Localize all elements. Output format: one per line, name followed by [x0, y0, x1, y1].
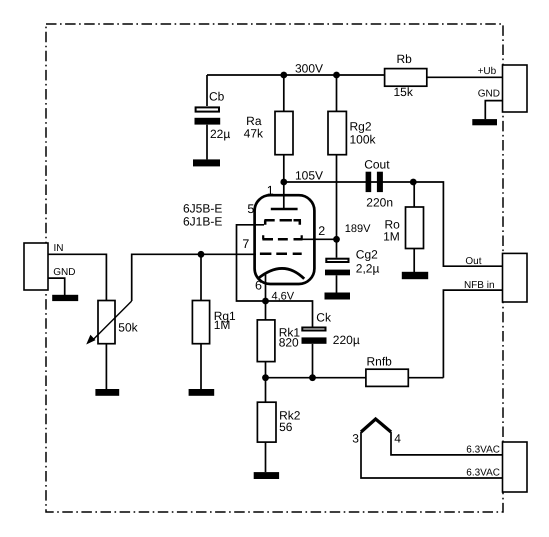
wire pin2 to 189V node	[303, 238, 337, 240]
svg-text:6J5B-E: 6J5B-E	[183, 201, 222, 215]
wire heater pin 4 to 6.3VAC	[391, 432, 503, 455]
node 105V (anode)	[280, 179, 287, 186]
svg-text:6.3VAC: 6.3VAC	[466, 444, 500, 455]
ground (under Cb)	[193, 159, 220, 166]
svg-text:820: 820	[279, 336, 299, 350]
svg-text:4: 4	[394, 431, 401, 445]
node grid/Rg1	[198, 251, 205, 258]
wire Rb to +Ub	[427, 76, 503, 78]
grid g3 (pin 5) dashed with end ticks	[264, 220, 301, 225]
ground (right of +Ub)	[472, 119, 497, 125]
node 300V (Rg2 top)	[333, 72, 340, 79]
connector +Ub/GND	[503, 65, 528, 112]
wire pin5 to cathode node	[237, 225, 266, 301]
ground (under Cg2)	[325, 293, 351, 300]
wire IN to pot	[48, 254, 106, 300]
svg-text:1M: 1M	[383, 230, 400, 244]
svg-text:Cb: Cb	[209, 90, 225, 104]
svg-text:Cg2: Cg2	[356, 248, 378, 262]
node Ck bottom	[309, 374, 316, 381]
resistor Rg2	[328, 75, 377, 239]
svg-text:100k: 100k	[350, 133, 377, 147]
svg-text:Rb: Rb	[397, 52, 413, 66]
svg-text:15k: 15k	[394, 85, 414, 99]
resistor Rnfb	[366, 354, 408, 386]
grid g1 (pin 7) dashed	[260, 253, 302, 256]
connector Out/NFB	[503, 253, 528, 302]
wire pot bottom to ground	[105, 344, 107, 389]
cathode lead (pin 6)	[265, 275, 267, 302]
wire NFB path	[408, 290, 502, 378]
wire GND stub (right)	[485, 101, 502, 120]
svg-text:50k: 50k	[118, 320, 138, 334]
svg-text:5: 5	[247, 202, 254, 216]
svg-text:Rg2: Rg2	[350, 120, 372, 134]
svg-text:220n: 220n	[366, 196, 393, 210]
ground (under Ro)	[402, 272, 428, 279]
anode plate bar	[271, 208, 298, 211]
svg-text:7: 7	[242, 237, 249, 251]
potentiometer 50k	[86, 301, 138, 345]
svg-text:105V: 105V	[295, 169, 323, 183]
anode lead (pin 1)	[283, 182, 285, 209]
svg-text:300V: 300V	[295, 62, 323, 76]
svg-text:Out: Out	[465, 256, 481, 267]
svg-text:Cout: Cout	[364, 157, 390, 171]
node cathode 4,6V	[262, 298, 269, 305]
ground (under pot)	[95, 389, 119, 396]
svg-text:3: 3	[352, 431, 359, 445]
svg-text:189V: 189V	[345, 223, 371, 235]
svg-text:2,2µ: 2,2µ	[356, 261, 380, 275]
ground (input)	[52, 295, 78, 301]
svg-text:6.3VAC: 6.3VAC	[466, 467, 500, 478]
svg-text:56: 56	[279, 420, 293, 434]
node 300V (Ra top)	[280, 72, 287, 79]
svg-text:47k: 47k	[244, 127, 264, 141]
ground (under Rg1)	[189, 389, 215, 396]
connector 6.3VAC	[503, 442, 528, 492]
svg-text:NFB in: NFB in	[464, 280, 495, 291]
node 189V	[333, 236, 340, 243]
border frame (dash-dot)	[46, 24, 503, 512]
wire 105V line	[284, 181, 414, 183]
resistor Rk2	[257, 378, 300, 472]
tube U1 envelope	[255, 195, 315, 284]
svg-text:+Ub: +Ub	[478, 66, 497, 77]
wire 300V rail	[207, 74, 385, 76]
wire cathode bottom row	[266, 377, 366, 379]
svg-text:GND: GND	[478, 89, 500, 100]
svg-text:6J1B-E: 6J1B-E	[183, 214, 222, 228]
ground (under Rk2)	[254, 472, 279, 479]
svg-text:Rnfb: Rnfb	[367, 354, 393, 368]
svg-text:6: 6	[255, 279, 262, 293]
resistor Rb	[385, 52, 427, 99]
capacitor Ck	[266, 301, 360, 378]
svg-text:22µ: 22µ	[210, 127, 230, 141]
heater filament pins 3-4	[352, 419, 401, 445]
wire heater pin 3 to 6.3VAC	[361, 432, 503, 478]
cathode arc	[258, 268, 305, 278]
connector IN	[24, 243, 48, 290]
resistor Ro	[383, 182, 423, 272]
svg-text:IN: IN	[54, 243, 64, 254]
capacitor Cout	[364, 157, 393, 209]
capacitor Cg2	[325, 239, 379, 292]
svg-text:220µ: 220µ	[333, 333, 360, 347]
svg-text:Ck: Ck	[316, 311, 332, 325]
capacitor Cb	[195, 75, 231, 159]
node Rk1 bottom	[262, 374, 269, 381]
resistor Rk1	[257, 301, 300, 378]
node Cout out	[410, 179, 417, 186]
svg-text:GND: GND	[53, 267, 75, 278]
wire GND stub	[48, 278, 65, 295]
svg-text:1: 1	[267, 183, 274, 197]
svg-text:1M: 1M	[214, 318, 231, 332]
resistor Rg1	[192, 254, 236, 389]
wire wiper to grid	[132, 254, 256, 301]
resistor Ra	[244, 75, 293, 182]
grid g2 (pin 2) dashed with up ticks	[262, 235, 302, 239]
wire Out path	[413, 182, 502, 266]
svg-text:2: 2	[318, 224, 325, 238]
